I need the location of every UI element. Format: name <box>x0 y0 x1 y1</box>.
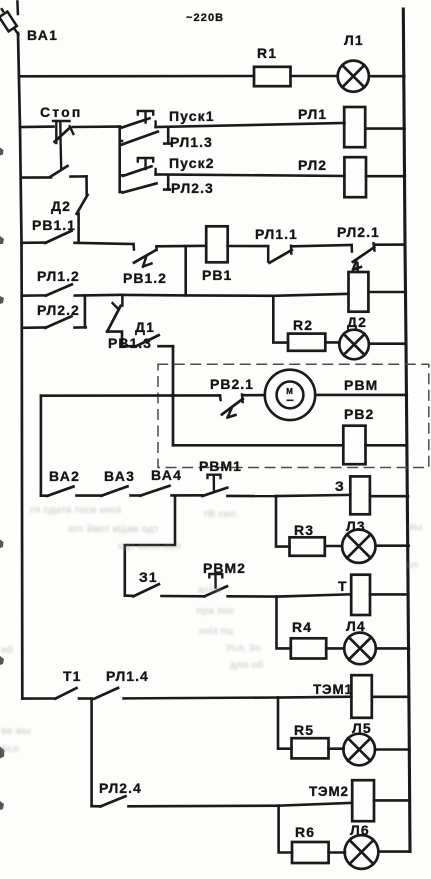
coil RV1 <box>206 226 228 262</box>
svg-text:ВА3: ВА3 <box>104 468 135 484</box>
wire D1 down to RV2 row <box>172 346 175 445</box>
lamp L5 <box>343 734 375 766</box>
wire TEM2 coil to rail <box>374 799 410 802</box>
wire RL1 coil to rail <box>365 127 404 130</box>
lamp D2 <box>339 330 369 360</box>
wire coil to rail <box>369 291 406 294</box>
wire L4 to rail <box>376 647 409 650</box>
contact RV1.3 (time delay, on vertical) <box>107 295 136 346</box>
wire top tick <box>16 2 19 15</box>
svg-text:РВ1.2: РВ1.2 <box>123 270 167 286</box>
svg-text:Т: Т <box>338 578 348 594</box>
edge smudge marks (scan artifacts) <box>0 148 5 811</box>
wire RV2 row <box>173 444 343 447</box>
svg-text:РЛ1.3: РЛ1.3 <box>170 134 213 150</box>
svg-text:РВ2: РВ2 <box>344 406 374 422</box>
svg-text:~220В: ~220В <box>186 12 224 24</box>
wire junction BA4 down (staircase to Z1 row) <box>125 495 175 595</box>
svg-text:R1: R1 <box>257 45 277 61</box>
svg-text:М: М <box>286 387 293 396</box>
contact D2 (on vertical wire) <box>77 176 88 242</box>
dashed box (motor timer unit) <box>158 364 429 467</box>
wire RL2.4 row to TEM2 coil <box>279 803 353 806</box>
svg-text:Т1: Т1 <box>63 668 82 684</box>
svg-text:R2: R2 <box>293 317 313 333</box>
contact RL2.1 (time delay) <box>352 243 406 272</box>
wire R1 to L1 <box>291 75 338 78</box>
svg-text:Пуск1: Пуск1 <box>169 108 215 124</box>
pushbutton Pusk1 <box>120 111 345 128</box>
wire TEM1 coil to rail <box>372 695 409 698</box>
svg-text:ТЭМ1: ТЭМ1 <box>313 682 353 697</box>
resistor R2 <box>288 334 325 351</box>
svg-text:R4: R4 <box>292 619 312 635</box>
contact RV1.2 (time delay) <box>134 244 207 267</box>
resistor R3 <box>290 537 325 556</box>
svg-text:РВМ: РВМ <box>344 377 378 393</box>
coil RL1 <box>344 107 365 147</box>
wire right rail <box>403 9 410 852</box>
resistor R5 <box>292 738 329 758</box>
svg-text:РВМ1: РВМ1 <box>199 458 242 474</box>
wire L3 to rail <box>376 544 409 547</box>
svg-text:З1: З1 <box>139 569 158 585</box>
coil under RL2.1 <box>349 272 369 312</box>
contact BA2 <box>41 487 102 496</box>
svg-text:R6: R6 <box>295 824 315 840</box>
wire R2 to D2 lamp <box>325 341 339 344</box>
svg-text:РЛ2.1: РЛ2.1 <box>337 224 380 240</box>
svg-text:Л5: Л5 <box>352 720 372 736</box>
svg-text:Л3: Л3 <box>346 518 366 534</box>
wire junction vertical RV1.2 row to RL1.2 row <box>184 246 187 295</box>
svg-text:ВА4: ВА4 <box>151 467 182 483</box>
svg-text:РЛ2.3: РЛ2.3 <box>171 180 214 196</box>
svg-text:Д2: Д2 <box>51 198 71 214</box>
wire L5 to rail <box>375 748 409 751</box>
breaker BA1 <box>0 9 18 34</box>
lamp L1 <box>338 61 369 92</box>
wire junction to R4 <box>277 597 291 649</box>
svg-text:Д1: Д1 <box>135 319 155 335</box>
motor RVM <box>265 370 315 420</box>
svg-text:РЛ1.1: РЛ1.1 <box>255 226 298 242</box>
wire row1 left <box>19 75 254 78</box>
svg-text:РВ1: РВ1 <box>202 267 232 283</box>
wire RV2 coil to rail <box>366 444 408 447</box>
pushbutton RVM1 <box>202 475 276 496</box>
svg-text:РЛ1.2: РЛ1.2 <box>37 268 80 284</box>
wire junction vertical to RL2.4 row <box>90 699 93 807</box>
contact BA3 <box>101 486 140 495</box>
contact T1 <box>22 688 91 699</box>
svg-text:Д2: Д2 <box>347 314 367 330</box>
contact RL2.2 <box>22 316 86 328</box>
pushbutton Stop (NC, double contact) <box>20 121 120 178</box>
contact RL1.4 <box>94 688 278 699</box>
contact RL2.4 <box>92 796 279 806</box>
contact RL1.2 <box>22 284 123 295</box>
contact RL2.3 <box>120 175 170 193</box>
wire motor row left branch <box>41 394 220 397</box>
svg-text:РЛ1: РЛ1 <box>298 106 327 122</box>
svg-text:Стоп: Стоп <box>40 104 83 120</box>
svg-text:РЛ1.4: РЛ1.4 <box>106 668 149 684</box>
svg-text:Л1: Л1 <box>344 32 364 48</box>
coil RL2 <box>344 157 366 197</box>
resistor R1 <box>254 67 291 86</box>
svg-text:Пуск2: Пуск2 <box>169 155 215 171</box>
svg-text:РЛ2: РЛ2 <box>298 157 327 173</box>
wire vertical to BA2 row <box>40 396 43 496</box>
wire left rail <box>18 33 22 699</box>
coil T <box>351 575 370 615</box>
wire L6 to rail <box>378 850 410 853</box>
wire junction vertical (row B to Pusk2) <box>118 127 121 192</box>
coil TEM2 <box>352 780 374 821</box>
contact D1 <box>137 335 174 346</box>
wire junction to R3 <box>276 496 290 546</box>
wire T1 row to TEM1 coil <box>278 695 351 698</box>
svg-text:РЛ2.4: РЛ2.4 <box>99 780 142 796</box>
contact Z1 <box>125 584 205 596</box>
svg-text:R5: R5 <box>294 722 314 738</box>
lamp L4 <box>344 633 376 665</box>
svg-text:ВА1: ВА1 <box>27 27 58 43</box>
wire R4 to L4 <box>326 647 344 650</box>
wire L1 to rail <box>369 75 404 78</box>
wire R3 to L3 <box>325 545 342 548</box>
contact RV2.1 (time delay) <box>220 395 265 418</box>
svg-text:РЛ2.2: РЛ2.2 <box>37 302 80 318</box>
wire junction to R6 <box>279 806 292 853</box>
svg-text:ТЭМ2: ТЭМ2 <box>309 784 349 799</box>
svg-text:Л6: Л6 <box>350 822 370 838</box>
resistor R6 <box>292 842 329 863</box>
pushbutton RVM2 <box>204 574 276 597</box>
lamp L3 <box>342 530 375 563</box>
coil Z <box>350 476 370 514</box>
svg-text:РВ2.1: РВ2.1 <box>210 376 254 392</box>
wire RVM2 row to T coil <box>277 594 352 596</box>
wire Z coil to rail <box>370 495 408 498</box>
wire RL2 coil to rail <box>366 175 405 178</box>
coil RV2 <box>343 426 365 465</box>
lamp L6 <box>345 835 379 869</box>
wire T coil to rail <box>370 593 408 596</box>
resistor R4 <box>291 638 326 658</box>
contact RV1.1 <box>22 231 134 244</box>
contact RL1.3 <box>120 127 170 145</box>
wire junction to R5 <box>278 698 292 749</box>
wire D2 lamp to rail <box>369 342 406 345</box>
pushbutton Pusk2 <box>120 158 345 176</box>
svg-text:ВА2: ВА2 <box>49 468 80 484</box>
wire junction vertical RL1.2 to RL2.2 <box>84 295 87 327</box>
svg-text:R3: R3 <box>294 522 314 538</box>
wire RVM1 row to Z coil <box>276 495 350 496</box>
wire R5 to L5 <box>329 747 344 750</box>
wire R6 to L6 <box>329 851 345 854</box>
svg-text:Л4: Л4 <box>346 618 366 634</box>
wire RV1 coil to RL1.1 <box>228 245 269 248</box>
wire motor to rail <box>315 394 407 397</box>
contact BA4 <box>140 486 202 496</box>
wire junction to R2 <box>273 296 288 343</box>
contact RL1.1 <box>268 245 352 263</box>
svg-text:З: З <box>335 478 345 494</box>
coil TEM1 <box>351 675 371 718</box>
wire RL1.2 row to coil left <box>122 294 348 296</box>
